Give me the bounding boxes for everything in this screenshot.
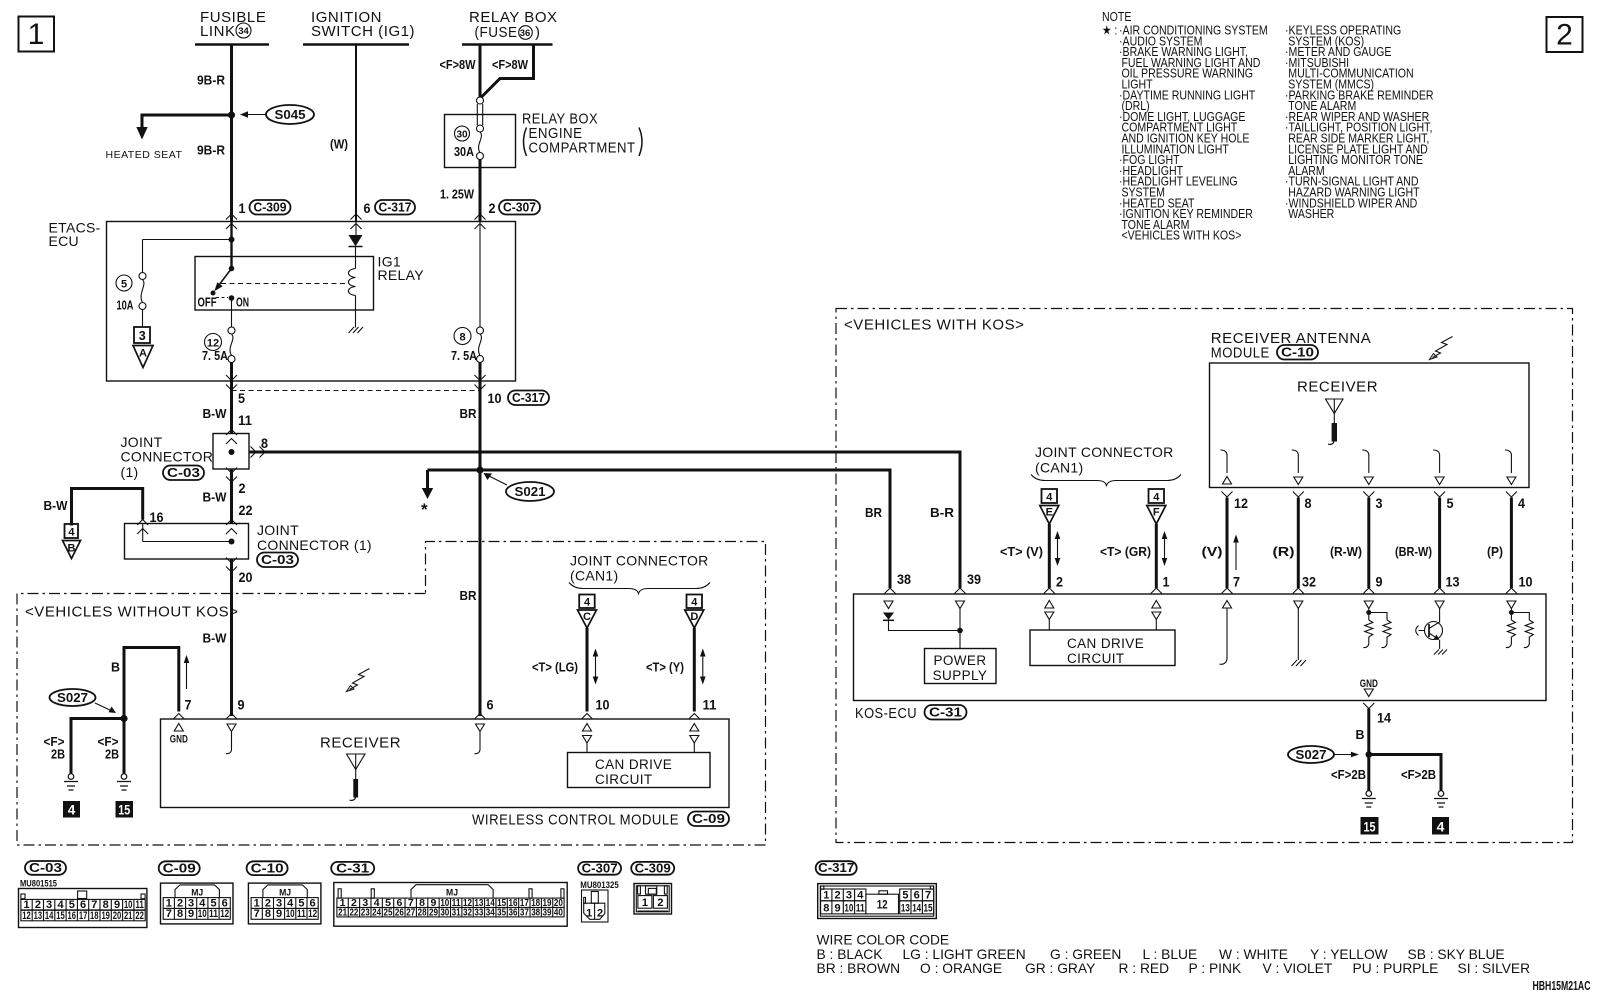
- svg-text:9: 9: [114, 899, 120, 911]
- pin 7 entry: [186, 658, 188, 689]
- svg-text:2: 2: [597, 908, 603, 920]
- svg-text:10: 10: [1519, 574, 1533, 590]
- svg-text:32: 32: [1302, 574, 1316, 590]
- svg-text:4: 4: [584, 597, 591, 609]
- svg-text:9: 9: [276, 908, 282, 920]
- svg-text:9: 9: [238, 697, 245, 713]
- svg-text:A: A: [139, 348, 147, 360]
- svg-text:29: 29: [429, 907, 438, 919]
- svg-text:8: 8: [261, 435, 268, 451]
- svg-text:11: 11: [297, 908, 306, 920]
- svg-text:2B: 2B: [105, 747, 119, 762]
- svg-text:C-309: C-309: [635, 860, 671, 875]
- svg-text:7: 7: [254, 908, 260, 920]
- svg-text:BR: BR: [460, 406, 478, 421]
- svg-text:(P): (P): [1487, 544, 1503, 559]
- svg-text:28: 28: [418, 907, 427, 919]
- svg-text:20: 20: [239, 569, 253, 585]
- wire B loop: [124, 648, 179, 719]
- wire 8 to pin 39: [249, 452, 960, 588]
- ground ref 4 black: [63, 801, 80, 818]
- svg-text:R : RED: R : RED: [1119, 961, 1170, 976]
- svg-text:19: 19: [101, 910, 110, 922]
- svg-text:RECEIVER: RECEIVER: [320, 735, 401, 752]
- svg-text:G : GREEN: G : GREEN: [1050, 947, 1121, 962]
- svg-text:24: 24: [372, 907, 381, 919]
- svg-text:F: F: [1153, 507, 1160, 519]
- svg-text:30A: 30A: [454, 144, 475, 159]
- svg-text:LINK: LINK: [200, 23, 236, 40]
- svg-text:1: 1: [642, 897, 648, 909]
- svg-text:CAN DRIVE: CAN DRIVE: [595, 757, 672, 772]
- svg-text:COMPARTMENT: COMPARTMENT: [529, 140, 636, 157]
- svg-text:C-09: C-09: [163, 860, 196, 875]
- connector C-317 table: [816, 860, 937, 918]
- svg-text:JOINT CONNECTOR: JOINT CONNECTOR: [570, 553, 709, 569]
- connector chevrons pin2: [475, 214, 486, 220]
- ground right: [117, 774, 131, 790]
- svg-text:10: 10: [286, 908, 295, 920]
- node branch to fuse 5: [229, 237, 235, 243]
- svg-text:RECEIVER: RECEIVER: [1297, 379, 1378, 396]
- svg-text:22: 22: [349, 907, 358, 919]
- svg-text:B-W: B-W: [44, 498, 69, 513]
- node S027 junction: [120, 715, 127, 722]
- svg-text:17: 17: [79, 910, 88, 922]
- svg-text:40: 40: [554, 907, 563, 919]
- svg-text:B: B: [111, 660, 120, 675]
- svg-text:6: 6: [487, 697, 494, 713]
- svg-text:L : BLUE: L : BLUE: [1143, 947, 1198, 962]
- svg-text:C-31: C-31: [336, 860, 369, 875]
- svg-text:2: 2: [239, 480, 246, 496]
- wire 1.25W: [479, 160, 482, 222]
- connector C-309: [631, 860, 674, 914]
- ETACS-ECU box: [49, 220, 516, 382]
- svg-text:34: 34: [238, 26, 249, 37]
- svg-text:C-03: C-03: [29, 860, 62, 875]
- svg-text:C-10: C-10: [251, 860, 284, 875]
- svg-text:HBH15M21AC: HBH15M21AC: [1533, 978, 1591, 993]
- svg-text:C-31: C-31: [929, 705, 962, 720]
- svg-text:KOS-ECU: KOS-ECU: [855, 705, 917, 722]
- svg-text:B-R: B-R: [930, 505, 955, 520]
- svg-text:C-03: C-03: [261, 552, 294, 567]
- svg-text:7. 5A: 7. 5A: [451, 348, 478, 363]
- page ref 2: [1547, 17, 1583, 52]
- svg-text:PU : PURPLE: PU : PURPLE: [1353, 961, 1439, 976]
- svg-text:<F>2B: <F>2B: [1331, 767, 1366, 782]
- pin 39 internal: [956, 601, 965, 609]
- svg-text:WASHER: WASHER: [1288, 206, 1334, 221]
- svg-text:P : PINK: P : PINK: [1189, 961, 1242, 976]
- relay switch: [198, 222, 250, 310]
- svg-text:*: *: [421, 500, 428, 519]
- svg-text:23: 23: [361, 907, 370, 919]
- dashed link pin5-pin10: [232, 390, 481, 392]
- IG1 relay box: [195, 254, 424, 311]
- arrow stub star: [426, 470, 429, 488]
- svg-text:12: 12: [308, 908, 317, 920]
- pin 32 internal ground: [1294, 601, 1303, 609]
- wire pin22 down: [230, 469, 233, 524]
- ground IG1 coil: [349, 327, 364, 333]
- svg-text:11: 11: [238, 412, 252, 428]
- svg-text:5: 5: [121, 279, 127, 291]
- svg-text:4: 4: [691, 597, 698, 609]
- wire pin5 exit: [230, 363, 233, 435]
- pin 7 internal hook: [1223, 601, 1232, 609]
- svg-text:10A: 10A: [117, 298, 134, 313]
- svg-text:<T> (V): <T> (V): [1000, 544, 1043, 559]
- svg-text:RELAY: RELAY: [378, 267, 425, 283]
- pin 9 entry: [226, 714, 237, 720]
- svg-text:13: 13: [901, 902, 910, 914]
- joint connector CAN1 (KOS): [1031, 444, 1181, 486]
- pins 10/11 internal: [583, 724, 592, 732]
- svg-text:9B-R: 9B-R: [197, 143, 226, 158]
- svg-text:7: 7: [185, 697, 192, 713]
- svg-text:(V): (V): [1202, 544, 1223, 559]
- svg-text:8: 8: [265, 908, 271, 920]
- svg-text:<VEHICLES WITH KOS>: <VEHICLES WITH KOS>: [1121, 228, 1241, 243]
- svg-text:E: E: [1046, 507, 1053, 519]
- ground ref 4 black: [1432, 817, 1449, 835]
- lightning RF symbol KOS: [1433, 337, 1453, 358]
- svg-text:5: 5: [1447, 495, 1454, 511]
- svg-text:8: 8: [459, 332, 465, 344]
- svg-text:12: 12: [1234, 495, 1248, 511]
- svg-text:B: B: [68, 543, 76, 555]
- svg-text:22: 22: [239, 502, 253, 518]
- receiver antenna (wireless module): [320, 735, 401, 801]
- fusible link 34: [195, 9, 269, 45]
- svg-text:C-317: C-317: [379, 200, 412, 215]
- module bottom chevrons + pins: [1222, 492, 1233, 498]
- svg-text:(R-W): (R-W): [1330, 544, 1362, 559]
- connector chevrons pin6: [351, 214, 362, 220]
- svg-text:34: 34: [486, 907, 495, 919]
- svg-text:30: 30: [456, 130, 468, 141]
- svg-text:GND: GND: [1360, 678, 1378, 690]
- svg-text:2: 2: [1556, 19, 1573, 52]
- svg-text:(CAN1): (CAN1): [1035, 460, 1083, 476]
- svg-text:1. 25W: 1. 25W: [440, 187, 475, 202]
- svg-text:BR: BR: [865, 505, 883, 520]
- svg-text:1: 1: [239, 200, 246, 216]
- svg-text:CIRCUIT: CIRCUIT: [1067, 651, 1125, 666]
- NOTE block: [1102, 9, 1434, 243]
- svg-text:WIRE COLOR CODE: WIRE COLOR CODE: [817, 933, 950, 948]
- svg-text:1: 1: [1163, 574, 1170, 590]
- CAN drive circuit (KOS): [1030, 630, 1175, 666]
- node S021 junction: [476, 466, 483, 473]
- node junction 14: [1366, 751, 1373, 758]
- svg-text:C-307: C-307: [582, 860, 618, 875]
- pin 9 internal: [227, 724, 236, 732]
- svg-text:25: 25: [384, 907, 393, 919]
- svg-text:CIRCUIT: CIRCUIT: [595, 772, 653, 787]
- svg-text:7. 5A: 7. 5A: [202, 348, 229, 363]
- CAN1 ref 4/C: [578, 595, 597, 629]
- splice S027 (KOS): [1288, 746, 1359, 763]
- splice S045: [240, 105, 314, 124]
- connector C-03 table: [19, 860, 147, 928]
- svg-text:POWER: POWER: [933, 653, 986, 668]
- svg-text:4: 4: [1046, 492, 1053, 504]
- CAN1 ref 4/F: [1147, 489, 1166, 524]
- svg-text:5: 5: [238, 390, 245, 406]
- svg-text:39: 39: [543, 907, 552, 919]
- ground left: [64, 774, 78, 790]
- svg-text:C-309: C-309: [254, 200, 287, 215]
- svg-text:<F>2B: <F>2B: [1401, 767, 1436, 782]
- svg-text:S045: S045: [275, 107, 306, 122]
- ground ref 3/A: [133, 327, 153, 368]
- svg-text:10: 10: [488, 390, 502, 406]
- svg-text:2: 2: [1056, 574, 1063, 590]
- svg-text:OFF: OFF: [198, 295, 217, 310]
- svg-text:W : WHITE: W : WHITE: [1219, 947, 1288, 962]
- connector C-307: [578, 860, 621, 922]
- svg-text:16: 16: [68, 910, 77, 922]
- svg-text:C-317: C-317: [512, 390, 545, 405]
- svg-text:3: 3: [46, 899, 52, 911]
- svg-text:B : BLACK: B : BLACK: [817, 947, 884, 962]
- fuse 12 7.5A: [202, 298, 235, 363]
- svg-text:12: 12: [220, 908, 229, 920]
- svg-text:9: 9: [188, 908, 194, 920]
- svg-text:4: 4: [857, 889, 864, 901]
- svg-text:37: 37: [520, 907, 529, 919]
- diode pin6: [349, 222, 363, 247]
- svg-text:D: D: [690, 611, 698, 623]
- svg-text:7: 7: [1233, 574, 1240, 590]
- svg-text:CONNECTOR (1): CONNECTOR (1): [257, 537, 372, 553]
- svg-text:B-W: B-W: [203, 406, 228, 421]
- wire 9B-R from fusible link: [230, 45, 233, 222]
- wire to heated seat: [142, 115, 232, 128]
- splice S027: [50, 689, 117, 713]
- svg-text:11: 11: [703, 697, 717, 713]
- svg-text:4: 4: [57, 899, 64, 911]
- svg-text:15: 15: [1364, 819, 1376, 835]
- svg-text:4: 4: [68, 527, 75, 539]
- svg-text:ON: ON: [236, 295, 249, 310]
- node S045 junction: [228, 111, 235, 118]
- wires to KOS-ECU: [1226, 498, 1229, 589]
- connector C-10 table: [247, 860, 321, 924]
- pin 2 / 22 labels: [226, 468, 237, 474]
- joint connector C-03 (upper): [121, 430, 250, 481]
- ignition switch (IG1): [303, 9, 415, 45]
- svg-text:21: 21: [338, 907, 347, 919]
- svg-text:8: 8: [823, 902, 829, 914]
- svg-text:13: 13: [1446, 574, 1460, 590]
- connector C-31 table: [331, 860, 567, 926]
- connector C-09 table: [159, 860, 233, 924]
- svg-text:<T> (LG): <T> (LG): [532, 660, 578, 675]
- ground ref 15 black: [1361, 817, 1379, 835]
- svg-text:GR : GRAY: GR : GRAY: [1025, 961, 1095, 976]
- svg-text:BR: BR: [460, 588, 478, 603]
- svg-text:): ): [535, 24, 541, 41]
- svg-text:<F>8W: <F>8W: [440, 57, 477, 72]
- svg-text:5: 5: [902, 889, 908, 901]
- svg-text:<VEHICLES WITHOUT KOS>: <VEHICLES WITHOUT KOS>: [25, 604, 239, 621]
- svg-text:S021: S021: [515, 484, 546, 499]
- svg-text:BR : BROWN: BR : BROWN: [817, 961, 901, 976]
- fuse 30 fusible link symbol: [477, 97, 484, 160]
- svg-text:MU801325: MU801325: [580, 880, 619, 891]
- svg-text:1: 1: [23, 899, 29, 911]
- svg-text:8: 8: [103, 899, 109, 911]
- svg-text:14: 14: [45, 910, 54, 922]
- fuse 5 10A: [116, 273, 146, 328]
- svg-text:(W): (W): [330, 137, 348, 152]
- svg-text:22: 22: [135, 910, 144, 922]
- CAN drive circuit (wireless): [568, 753, 711, 788]
- svg-text:9: 9: [835, 902, 841, 914]
- fuse 8 7.5A: [451, 222, 484, 364]
- svg-text:7: 7: [166, 908, 172, 920]
- svg-text:1: 1: [823, 889, 829, 901]
- svg-text:★ :: ★ :: [1102, 22, 1117, 37]
- svg-text:36: 36: [520, 28, 531, 39]
- svg-text:(1): (1): [121, 464, 139, 480]
- wire F8W right bend: [481, 45, 534, 98]
- svg-text:7: 7: [91, 899, 97, 911]
- wire (W) ignition: [355, 45, 357, 222]
- svg-text:4: 4: [1437, 819, 1445, 835]
- svg-text:(BR-W): (BR-W): [1395, 544, 1432, 559]
- svg-text:2: 2: [835, 889, 841, 901]
- svg-text:14: 14: [912, 902, 922, 914]
- svg-text:2: 2: [35, 899, 41, 911]
- svg-text:7: 7: [925, 889, 931, 901]
- svg-text:4: 4: [1518, 495, 1525, 511]
- svg-text:32: 32: [463, 907, 472, 919]
- svg-text:31: 31: [452, 907, 461, 919]
- wire S021 to pin 38: [428, 470, 891, 588]
- svg-text:20: 20: [113, 910, 122, 922]
- connector chevrons pin1: [226, 214, 237, 220]
- relay box (engine compartment): [445, 111, 643, 168]
- svg-text:<T> (GR): <T> (GR): [1100, 544, 1151, 559]
- wire color code: [817, 933, 1531, 977]
- power supply: [925, 649, 997, 684]
- svg-text:3: 3: [139, 329, 146, 343]
- svg-text:(CAN1): (CAN1): [570, 568, 618, 584]
- svg-text:S027: S027: [57, 690, 88, 705]
- vehicles without KOS border: [17, 542, 766, 846]
- svg-text:SI : SILVER: SI : SILVER: [1458, 961, 1531, 976]
- svg-text:SWITCH (IG1): SWITCH (IG1): [311, 23, 415, 40]
- svg-text:11: 11: [209, 908, 218, 920]
- svg-text:C-317: C-317: [818, 860, 854, 875]
- svg-text:C-03: C-03: [167, 465, 200, 480]
- svg-text:B: B: [1356, 727, 1365, 742]
- svg-text:16: 16: [150, 509, 164, 525]
- wires to grounds: [1369, 755, 1441, 791]
- svg-text:<VEHICLES WITH KOS>: <VEHICLES WITH KOS>: [844, 317, 1025, 334]
- KOS-ECU entry chevrons: [1222, 588, 1233, 594]
- svg-text:30: 30: [440, 907, 449, 919]
- svg-text:SB : SKY BLUE: SB : SKY BLUE: [1408, 947, 1505, 962]
- svg-text:33: 33: [474, 907, 483, 919]
- svg-text:38: 38: [531, 907, 540, 919]
- receiver antenna module box: [1210, 330, 1530, 488]
- pin 7 GND: [174, 724, 183, 732]
- svg-text:<F>8W: <F>8W: [492, 57, 529, 72]
- svg-text:JOINT CONNECTOR: JOINT CONNECTOR: [1035, 444, 1174, 460]
- svg-text:11: 11: [135, 899, 144, 911]
- svg-text:8: 8: [177, 908, 183, 920]
- svg-text:12: 12: [877, 898, 888, 912]
- lightning RF symbol: [350, 669, 370, 690]
- receiver antenna symbol: [1297, 379, 1378, 445]
- svg-text:C-10: C-10: [1281, 345, 1314, 360]
- svg-text:CONNECTOR: CONNECTOR: [121, 449, 214, 465]
- svg-text:C: C: [583, 611, 591, 623]
- svg-text:Y : YELLOW: Y : YELLOW: [1310, 947, 1388, 962]
- svg-text:<T> (Y): <T> (Y): [646, 660, 684, 675]
- svg-text:(FUSE: (FUSE: [475, 24, 518, 41]
- svg-text:GND: GND: [170, 734, 188, 746]
- wire pin10 exit BR: [479, 363, 482, 717]
- svg-text:35: 35: [497, 907, 506, 919]
- internal signal arrows x5: [1221, 450, 1512, 473]
- page ref 1: [19, 17, 55, 52]
- svg-text:CAN DRIVE: CAN DRIVE: [1067, 636, 1144, 651]
- relay box (fuse 36): [462, 9, 558, 45]
- svg-text:26: 26: [395, 907, 404, 919]
- svg-text:3: 3: [1376, 495, 1383, 511]
- svg-text:C-09: C-09: [692, 811, 725, 826]
- up arrow beside wire12: [1235, 538, 1237, 570]
- CAN1 ref 4/D: [685, 595, 704, 629]
- ground ref 15 black: [116, 801, 134, 818]
- svg-text:10: 10: [844, 902, 853, 914]
- svg-text:36: 36: [508, 907, 517, 919]
- svg-text:S027: S027: [1296, 747, 1327, 762]
- svg-text:2B: 2B: [51, 747, 65, 762]
- wire pin14 B: [1367, 709, 1370, 755]
- svg-text:10: 10: [596, 697, 610, 713]
- joint connector CAN1 (without KOS): [569, 553, 710, 594]
- svg-text:4: 4: [68, 803, 76, 818]
- svg-text:21: 21: [124, 910, 133, 922]
- svg-text:3: 3: [846, 889, 852, 901]
- relay actuation dashed: [221, 283, 348, 285]
- ground ref 4/B: [63, 524, 81, 559]
- wire B-W down to wireless module: [230, 559, 233, 716]
- svg-text:1: 1: [586, 908, 592, 920]
- wireless control module box: [161, 719, 730, 808]
- pin 13 transistor: [1435, 601, 1444, 609]
- svg-text:18: 18: [90, 910, 99, 922]
- IG1 relay coil: [348, 247, 355, 328]
- svg-text:9: 9: [1376, 574, 1383, 590]
- svg-text:10: 10: [198, 908, 207, 920]
- CAN1 ref 4/E: [1040, 489, 1059, 524]
- KOS-ECU box: [854, 594, 1547, 701]
- svg-text:B-W: B-W: [203, 631, 228, 646]
- pin 9 resistors: [1364, 601, 1373, 609]
- svg-text:2: 2: [489, 200, 496, 216]
- joint connector (1) C-03 lower: [125, 520, 372, 568]
- svg-text:HEATED SEAT: HEATED SEAT: [106, 149, 183, 161]
